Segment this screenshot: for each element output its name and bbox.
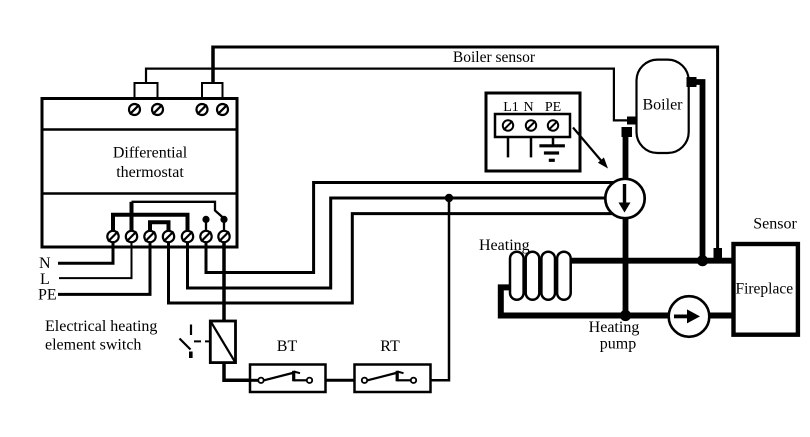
wire L to terminal B2 xyxy=(59,233,132,278)
radiator coil loop 3 xyxy=(541,252,555,300)
relay contact node over B7 xyxy=(220,216,227,223)
radiator right pipe to fireplace xyxy=(568,258,734,264)
BT lever xyxy=(264,373,293,380)
arrow pointing to pump xyxy=(573,128,604,165)
pump P1 arrow xyxy=(623,184,626,203)
fireplace box xyxy=(734,244,798,335)
top terminal T3 xyxy=(197,104,208,115)
wire PE to ground xyxy=(552,137,555,145)
wire terminal B6 to pump (top) xyxy=(206,183,625,273)
svg-text:RT: RT xyxy=(380,338,400,355)
wire fireplace sensor (top outer wire) xyxy=(213,47,718,251)
radiator coil loop 4 xyxy=(557,252,571,300)
radiator left pipe and bottom pipe to fireplace xyxy=(501,287,734,315)
bottom terminal B7 xyxy=(218,231,229,242)
internal bridge wire terminals B1-B5 xyxy=(113,215,188,234)
internal jumper terminals B3-B4 xyxy=(150,222,169,234)
wire RT output up to node on pump wire xyxy=(416,198,449,380)
svg-text:N: N xyxy=(39,255,51,272)
RT lever xyxy=(368,373,397,380)
mains terminal L1 xyxy=(503,120,513,130)
svg-text:Boiler: Boiler xyxy=(643,97,684,114)
wire terminal B4 to pump (lowest) xyxy=(169,214,626,303)
top terminal T1 xyxy=(129,104,140,115)
fireplace sensor contact square xyxy=(714,248,723,258)
label L1 N PE xyxy=(503,100,561,115)
label Electrical heating element switch xyxy=(45,318,157,354)
heating element E1 xyxy=(210,321,235,363)
BT wire tick to contact xyxy=(294,379,307,381)
svg-text:Heating: Heating xyxy=(589,319,640,336)
wire BT to RT xyxy=(312,379,367,382)
top terminal T4 xyxy=(217,104,228,115)
boiler right port square xyxy=(687,77,697,87)
radiator coil loop 2 xyxy=(526,252,540,300)
ground symbol xyxy=(539,146,565,161)
boiler tank xyxy=(637,60,689,153)
pipe boiler right to fireplace junction xyxy=(691,82,703,261)
wire PE to terminal B3 xyxy=(58,233,150,294)
mains terminal PE xyxy=(548,120,558,130)
heating element diagonal xyxy=(211,322,235,362)
BT contact left xyxy=(258,378,263,383)
svg-text:Electrical heating: Electrical heating xyxy=(45,318,157,335)
wire element to BT switch xyxy=(224,363,253,381)
junction node upper pipe xyxy=(697,255,708,266)
boiler left port square xyxy=(622,127,633,137)
bottom terminal B5 xyxy=(182,231,193,242)
thermostat divider lower xyxy=(42,192,237,195)
RT actuator tick xyxy=(396,371,399,382)
top terminal T2 xyxy=(152,104,163,115)
relay lever wire xyxy=(132,202,225,219)
wire N to terminal B1 xyxy=(58,233,113,263)
RT contact left xyxy=(362,378,367,383)
BT internal wire stubs xyxy=(250,379,258,382)
svg-text:PE: PE xyxy=(38,286,57,303)
bottom terminal B1 xyxy=(107,231,118,242)
riser of bracket 2 to fireplace sensor wire xyxy=(211,46,215,84)
wire boiler sensor xyxy=(146,69,628,121)
pump P2 arrow xyxy=(674,314,689,318)
bottom terminal B2 xyxy=(126,231,137,242)
label Differential thermostat xyxy=(113,145,188,182)
switch RT box xyxy=(355,365,431,393)
svg-text:Fireplace: Fireplace xyxy=(735,281,793,298)
svg-text:thermostat: thermostat xyxy=(116,164,184,181)
wire node B7 to terminal xyxy=(223,219,225,232)
RT actuator flag xyxy=(397,372,403,374)
svg-text:pump: pump xyxy=(600,336,636,353)
heating pump P2 xyxy=(669,296,710,337)
junction node bottom pipe xyxy=(620,310,631,321)
RT contact right xyxy=(411,378,416,383)
relay contact node over B6 xyxy=(202,216,209,223)
internal wire from terminal B2 (relay common) xyxy=(130,202,134,234)
thermostat box U1 xyxy=(42,99,237,248)
junction node on pump middle wire xyxy=(445,194,453,202)
top jumper bracket 1 (terminals T1-T2) xyxy=(135,83,158,99)
thermostat divider upper xyxy=(42,128,237,131)
mains terminal N xyxy=(526,120,536,130)
BT actuator tick xyxy=(292,371,295,382)
wire L1 down xyxy=(507,137,510,157)
boiler sensor contact square xyxy=(627,117,636,125)
svg-text:Sensor: Sensor xyxy=(753,216,797,233)
label Heating pump xyxy=(589,319,640,353)
manual switch actuator lever xyxy=(180,325,212,359)
pipe boiler down through pump to bottom junction xyxy=(623,135,629,316)
wire N down xyxy=(530,137,533,157)
RT wire tick to contact xyxy=(397,379,411,381)
circulation pump P1 xyxy=(605,179,644,218)
bottom terminal B3 xyxy=(144,231,155,242)
BT contact right xyxy=(307,378,312,383)
wire terminal B7 to heating element xyxy=(222,233,226,322)
wire node B6 to terminal xyxy=(205,219,207,232)
svg-text:Differential: Differential xyxy=(113,145,188,162)
bottom terminal B4 xyxy=(163,231,174,242)
wire terminal B5 to pump (middle) xyxy=(188,198,626,288)
svg-text:Boiler sensor: Boiler sensor xyxy=(453,49,536,66)
svg-text:element switch: element switch xyxy=(45,337,141,354)
riser of bracket 1 to boiler sensor wire xyxy=(145,68,147,84)
bottom terminal B6 xyxy=(200,231,211,242)
top jumper bracket 2 (terminals T3-T4) xyxy=(202,83,223,99)
BT actuator flag xyxy=(294,372,300,374)
svg-text:L: L xyxy=(40,271,50,288)
svg-text:Heating: Heating xyxy=(479,237,530,254)
svg-text:BT: BT xyxy=(277,338,298,355)
terminal strip inner box xyxy=(495,114,570,137)
switch BT box xyxy=(250,365,326,393)
terminal block box (mains) xyxy=(486,93,580,171)
radiator coil loop 1 xyxy=(510,252,524,300)
